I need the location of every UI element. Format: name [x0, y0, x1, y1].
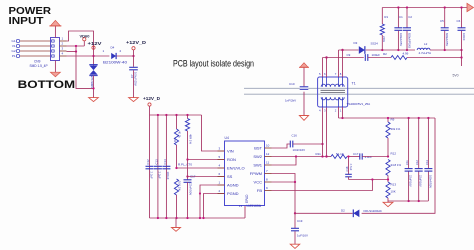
wire D4 cathode to +12V_D node: [117, 55, 134, 57]
svg-text:5V0: 5V0: [453, 74, 459, 78]
svg-text:2: 2: [335, 109, 337, 113]
net stub 5V0: [461, 58, 463, 67]
svg-text:C5: C5: [440, 19, 444, 23]
wire T1 pin6 up: [326, 58, 328, 78]
wire secondary ground rail: [388, 200, 428, 202]
ground arrow C10 bottom: [299, 116, 308, 121]
svg-text:V1: V1: [12, 44, 16, 48]
svg-text:8: 8: [340, 72, 342, 76]
svg-text:+12V_D: +12V_D: [126, 40, 147, 45]
svg-text:2.2uF: 2.2uF: [158, 172, 162, 179]
svg-text:B2100W-40: B2100W-40: [103, 61, 127, 65]
svg-text:2: 2: [62, 42, 64, 46]
wire rail to VIN: [202, 115, 225, 151]
wire tie rows 2-3 down: [76, 46, 94, 88]
svg-text:240k: 240k: [382, 36, 386, 43]
pin 3 VIN: [218, 150, 225, 152]
wire input row 1: [20, 40, 51, 42]
wire EN/UVLO: [177, 167, 225, 169]
resistor R12: [386, 160, 390, 176]
svg-text:51.1K: 51.1K: [336, 152, 344, 156]
svg-text:C13: C13: [154, 159, 158, 165]
svg-text:820uF/P5X8: 820uF/P5X8: [408, 33, 412, 48]
svg-text:1: 1: [103, 49, 105, 53]
svg-text:C19: C19: [297, 219, 303, 223]
svg-text:C1: C1: [399, 15, 403, 19]
wire PGND: [204, 194, 225, 219]
svg-text:SS: SS: [227, 174, 233, 179]
wire C9 R2 damper: [323, 57, 364, 59]
svg-text:C7: C7: [130, 74, 134, 78]
wire EPAD to ground rail: [244, 206, 246, 219]
pin 7 FPWM: [265, 173, 272, 175]
wire T1 pin4 to SW: [322, 107, 324, 157]
svg-text:4: 4: [62, 52, 64, 56]
svg-text:5: 5: [219, 155, 221, 159]
svg-text:11: 11: [266, 161, 269, 165]
svg-text:9: 9: [266, 186, 268, 190]
capacitor C10: [303, 67, 305, 116]
input terminal P1: [16, 54, 19, 57]
svg-text:7: 7: [335, 72, 337, 76]
pin stub CN9 pin 1: [60, 40, 67, 42]
svg-text:R12: R12: [391, 152, 397, 156]
capacitor C12 out: [418, 118, 420, 201]
resistor R13: [386, 182, 390, 198]
svg-text:T1: T1: [352, 82, 356, 86]
svg-text:3.3nF: 3.3nF: [365, 155, 373, 159]
input terminal G1: [16, 39, 19, 42]
wire C18 to fb divider node: [349, 179, 389, 181]
wire SW2: [272, 156, 327, 158]
svg-text:1nF/2kV: 1nF/2kV: [285, 99, 296, 103]
wire main +12V row: [67, 55, 110, 57]
T1 core: [321, 89, 346, 91]
capacitor C9: [364, 54, 366, 61]
wire row1 to +12V node: [67, 31, 94, 56]
svg-text:49R 1%: 49R 1%: [189, 134, 193, 144]
svg-text:D2: D2: [341, 209, 345, 213]
wire C16 to SW node: [293, 143, 323, 145]
svg-text:34.8 1%: 34.8 1%: [391, 163, 402, 167]
svg-text:C6: C6: [457, 19, 461, 23]
resistor R3: [176, 115, 178, 129]
pin 11 SW1: [265, 164, 272, 166]
capacitor C2: [406, 8, 408, 28]
wire VCC: [272, 181, 296, 183]
wire primary ground rail: [150, 217, 246, 219]
pin 9 FB: [265, 190, 272, 192]
svg-text:DFLS1100HC: DFLS1100HC: [364, 209, 383, 213]
svg-text:R13: R13: [391, 183, 397, 187]
diode D4: [111, 53, 116, 59]
svg-text:1uF/16V: 1uF/16V: [297, 234, 308, 238]
svg-text:7: 7: [266, 169, 268, 173]
svg-text:4: 4: [319, 109, 321, 113]
svg-text:G2: G2: [11, 49, 15, 53]
svg-text:4: 4: [219, 164, 221, 168]
svg-text:100nF: 100nF: [462, 33, 466, 41]
svg-text:4.99: 4.99: [403, 52, 409, 56]
svg-text:EPAD: EPAD: [245, 194, 249, 203]
svg-text:4.7uF: 4.7uF: [349, 164, 353, 171]
svg-text:U4: U4: [225, 136, 229, 140]
wire rail secondary diode: [339, 49, 359, 51]
wire to fb node: [362, 156, 388, 158]
wire FPWM tie: [272, 174, 296, 183]
svg-text:BST: BST: [254, 145, 262, 150]
op-amp U1 regulator U4 LM5160A body: [225, 141, 265, 206]
svg-text:10: 10: [266, 144, 270, 148]
capacitor C13 out: [427, 118, 429, 201]
net +12V: [92, 46, 95, 49]
transformer T1: [318, 77, 348, 107]
svg-text:30k 1%: 30k 1%: [391, 127, 401, 131]
svg-text:5: 5: [319, 72, 321, 76]
pin 8 VCC: [265, 181, 272, 183]
resistor R7: [187, 115, 189, 119]
wire D3 to L2: [366, 49, 415, 51]
svg-text:R11: R11: [316, 152, 322, 156]
capacitor C7: [133, 56, 135, 67]
svg-text:BOTTOM: BOTTOM: [18, 79, 76, 91]
output power arrow: [467, 3, 474, 11]
ground arrow TVS: [89, 98, 99, 102]
capacitor C11 out: [408, 118, 410, 201]
wire T1 pin8 up: [342, 50, 344, 77]
svg-text:40.2k: 40.2k: [178, 131, 182, 138]
pin stub CN9 pin 4: [60, 55, 67, 57]
svg-text:1: 1: [219, 181, 221, 185]
svg-text:R3: R3: [173, 138, 177, 142]
wire T1 pin2 down: [338, 107, 340, 118]
svg-text:FPWM: FPWM: [250, 171, 262, 176]
svg-text:D4: D4: [111, 46, 115, 50]
svg-text:6: 6: [324, 72, 326, 76]
svg-text:G1: G1: [11, 39, 15, 43]
capacitor C19: [294, 182, 296, 228]
svg-text:10nF/16V: 10nF/16V: [293, 148, 306, 152]
svg-text:100uF/25V: 100uF/25V: [399, 33, 403, 46]
resistor R9: [387, 118, 389, 122]
pin 1 AGND: [218, 184, 225, 186]
inductor L2: [417, 48, 430, 50]
svg-text:PGND: PGND: [227, 191, 239, 196]
svg-text:EN/UVLO: EN/UVLO: [227, 165, 245, 170]
svg-text:10K: 10K: [391, 190, 396, 194]
wire +12V_D rail: [150, 114, 202, 116]
svg-text:+12V_D: +12V_D: [143, 96, 161, 101]
power arrow above CN9: [54, 26, 56, 38]
svg-text:SMBJ12A: SMBJ12A: [90, 75, 94, 88]
diode D3: [359, 46, 365, 54]
svg-text:2: 2: [120, 49, 122, 53]
svg-text:6: 6: [219, 172, 221, 176]
svg-text:C12: C12: [415, 160, 419, 165]
wire T1 pin7 up: [338, 50, 340, 77]
svg-text:SW2: SW2: [253, 154, 262, 159]
svg-text:C17: C17: [190, 175, 196, 179]
svg-text:13: 13: [239, 204, 243, 208]
capacitor C6: [461, 8, 463, 28]
pin 5 RON: [218, 159, 225, 161]
resistor R4: [174, 179, 178, 195]
svg-text:VIN: VIN: [227, 148, 234, 153]
pin 6 SS: [218, 176, 225, 178]
wire input row 3: [20, 50, 51, 52]
wire FB: [272, 180, 373, 191]
pin stub CN9 pin 3: [60, 50, 67, 52]
svg-text:4.7uH/7A: 4.7uH/7A: [419, 51, 432, 55]
wire RON: [188, 159, 225, 161]
svg-text:22nF/50V: 22nF/50V: [189, 183, 193, 195]
wire SW1 tie: [272, 157, 297, 166]
svg-text:C12: C12: [146, 159, 150, 165]
svg-text:+12V: +12V: [88, 41, 103, 46]
svg-text:3: 3: [219, 147, 221, 151]
capacitor C17 softstart: [187, 160, 189, 180]
svg-text:C14: C14: [163, 159, 167, 165]
svg-text:P1: P1: [12, 54, 16, 58]
pin 4 EN/UVLO: [218, 167, 225, 169]
wire T1 pin5 up: [322, 58, 324, 78]
svg-text:SS24: SS24: [371, 42, 379, 46]
svg-text:C11: C11: [405, 160, 409, 165]
svg-text:10K 1%: 10K 1%: [178, 181, 182, 191]
wire AGND: [200, 185, 225, 218]
svg-text:LM5160A: LM5160A: [247, 204, 262, 208]
input terminal G2: [16, 49, 19, 52]
wire row2 extension: [67, 45, 85, 47]
wire T1 pin3 to SW: [326, 107, 328, 157]
svg-text:3: 3: [324, 109, 326, 113]
svg-text:PCB layout isolate design: PCB layout isolate design: [173, 58, 254, 68]
isolation barrier line upper: [244, 87, 474, 89]
input terminal V1: [16, 44, 19, 47]
svg-text:TS4000/5V1_25A: TS4000/5V1_25A: [347, 102, 371, 106]
svg-text:2: 2: [219, 189, 221, 193]
wire aux winding to D2: [295, 118, 435, 213]
svg-text:100uF/25V: 100uF/25V: [134, 72, 138, 86]
ground symbol secondary: [387, 201, 389, 202]
capacitor C14: [165, 115, 167, 218]
svg-text:1: 1: [340, 109, 342, 113]
svg-text:VCC: VCC: [254, 179, 263, 184]
svg-text:1: 1: [62, 37, 64, 41]
wire T1 pin1 down: [342, 107, 344, 118]
svg-text:C2: C2: [408, 15, 412, 19]
wire row3 extension: [67, 51, 77, 53]
wire input row 4: [20, 55, 51, 57]
pin 2 PGND: [218, 193, 225, 195]
power arrow C10 top: [300, 63, 308, 68]
pin 12 SW2: [265, 156, 272, 158]
wire L2 to C6 node: [430, 49, 462, 51]
ground symbol C19: [290, 244, 299, 248]
svg-text:R1: R1: [384, 15, 388, 19]
svg-text:22uF/16V: 22uF/16V: [419, 175, 423, 187]
wire top output rail: [382, 7, 467, 9]
net +12V_D input: [133, 50, 135, 56]
T1 primary winding: [321, 84, 344, 87]
resistor R11: [327, 156, 332, 158]
svg-text:VD60: VD60: [80, 35, 90, 39]
wire BST: [272, 144, 291, 148]
svg-text:R2: R2: [383, 52, 387, 56]
svg-text:FB: FB: [257, 188, 262, 193]
svg-text:8: 8: [266, 178, 268, 182]
svg-text:C18: C18: [345, 166, 349, 171]
svg-text:L2: L2: [424, 42, 428, 46]
svg-text:AGND: AGND: [227, 182, 239, 187]
capacitor C12: [149, 115, 151, 218]
svg-text:RON: RON: [227, 157, 236, 162]
wire R2 to output node: [407, 57, 462, 59]
svg-text:100uF: 100uF: [372, 53, 381, 57]
ground arrow primary: [175, 218, 177, 228]
capacitor C5: [444, 8, 446, 28]
svg-text:2.2uF: 2.2uF: [149, 172, 153, 179]
svg-text:INPUT: INPUT: [9, 16, 45, 27]
svg-text:100nF/50V: 100nF/50V: [428, 175, 432, 188]
svg-text:C13: C13: [425, 160, 429, 165]
diode D2: [353, 210, 362, 217]
svg-text:C10: C10: [289, 82, 295, 86]
isolation barrier line lower: [244, 93, 474, 95]
ground arrow below CN9: [54, 61, 56, 73]
svg-text:3: 3: [62, 47, 64, 51]
svg-text:C16: C16: [292, 134, 298, 138]
capacitor C18: [348, 157, 350, 175]
capacitor C17 fb: [347, 156, 360, 158]
connector CN9: [51, 38, 60, 61]
capacitor C1: [397, 8, 399, 28]
svg-text:C9: C9: [347, 53, 351, 57]
svg-text:100nF: 100nF: [166, 172, 170, 180]
svg-text:22uF/16V: 22uF/16V: [409, 175, 413, 187]
capacitor C16: [289, 141, 291, 148]
svg-text:820uF/25V: 820uF/25V: [445, 33, 449, 46]
wire SS: [188, 176, 225, 178]
node B fb: [387, 176, 389, 183]
resistor R2: [368, 57, 391, 59]
wire input row 2: [20, 45, 51, 47]
capacitor C13: [157, 115, 159, 218]
TVS diode D5: [93, 56, 95, 65]
svg-text:C17: C17: [353, 152, 359, 156]
svg-text:SW1: SW1: [253, 162, 262, 167]
wire rail secondary return: [339, 117, 436, 119]
ground arrow C7: [129, 98, 139, 102]
resistor R1: [381, 8, 383, 25]
svg-text:R.PL_CT0: R.PL_CT0: [178, 162, 192, 166]
pin 10 BST: [265, 147, 272, 149]
net stub VD60: [83, 41, 85, 46]
T1 secondary winding: [321, 97, 344, 100]
svg-text:SMD 1.5_4P: SMD 1.5_4P: [30, 64, 48, 68]
svg-text:12: 12: [266, 152, 270, 156]
pin stub CN9 pin 2: [60, 45, 67, 47]
svg-text:D3: D3: [354, 41, 358, 45]
